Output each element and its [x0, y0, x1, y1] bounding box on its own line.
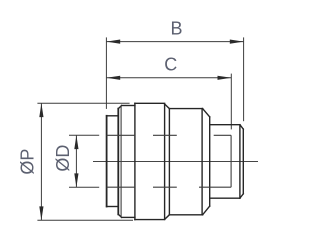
bore bottom line segment 3 [199, 186, 231, 188]
center line [93, 161, 258, 163]
spigot cone bottom [203, 206, 210, 215]
bore top line segment 3 [214, 134, 231, 136]
svg-text:ØP: ØP [18, 149, 38, 175]
bore bottom line segment 1 [107, 186, 135, 188]
svg-text:ØD: ØD [53, 145, 73, 172]
body step edge rear [168, 109, 170, 215]
dimension B extension line right [243, 37, 245, 121]
spigot chamfer edge [239, 125, 241, 199]
body step edge front [164, 104, 166, 219]
svg-text:C: C [164, 55, 177, 75]
svg-text:B: B [170, 19, 182, 39]
bore stop wall [230, 135, 232, 187]
bore bottom line segment 2 [153, 186, 177, 188]
cap chamfer edge line [120, 106, 122, 217]
body section2 bottom edge [169, 214, 202, 216]
dimension D line [75, 135, 77, 187]
dimension C arrow right [218, 76, 232, 80]
bore top line segment 1 [107, 134, 135, 136]
dimension P extension line bottom [37, 219, 133, 221]
collet top edge [107, 115, 119, 117]
dimension D extension line top [69, 134, 99, 136]
cap left face [117, 109, 119, 215]
dimension C extension line right [230, 74, 232, 130]
body section2 right edge [201, 109, 203, 215]
spigot end top chamfer [240, 125, 243, 129]
bore top line segment 2 [153, 134, 177, 136]
spigot bottom edge [210, 197, 240, 199]
dimension B arrow right [230, 40, 244, 44]
dimension D arrow bottom [74, 173, 78, 187]
spigot cone top [203, 109, 210, 117]
collet left face [106, 116, 108, 207]
dimension C line [106, 77, 231, 79]
fitting outline [107, 103, 244, 219]
cap bottom chamfer [118, 214, 121, 217]
spigot step face [209, 117, 211, 206]
dimension P arrow top [39, 103, 43, 117]
spigot end face [242, 129, 244, 194]
dimension D arrow top [74, 135, 78, 149]
dimension B line [106, 41, 243, 43]
cap top edge [122, 105, 135, 107]
internal bore lines [107, 106, 232, 217]
spigot end bottom chamfer [240, 194, 243, 198]
body section1 top edge [135, 102, 165, 104]
dimension P line [40, 103, 42, 220]
dimension B arrow left [106, 40, 120, 44]
cap top chamfer [118, 106, 121, 109]
collet bottom edge [107, 206, 119, 208]
dimension P arrow bottom [39, 206, 43, 220]
dimension C arrow left [106, 76, 120, 80]
cap bottom edge [122, 216, 135, 218]
spigot top edge [210, 124, 240, 126]
body section1 bottom edge [135, 219, 165, 221]
body section2 top edge [169, 108, 202, 110]
cap right face [134, 103, 136, 219]
body step bottom chamfer [165, 215, 170, 220]
dimension P extension line top [37, 102, 129, 104]
body step top chamfer [165, 104, 170, 109]
dimension D extension line bottom [69, 186, 99, 188]
dimension B extension line left [105, 37, 107, 109]
